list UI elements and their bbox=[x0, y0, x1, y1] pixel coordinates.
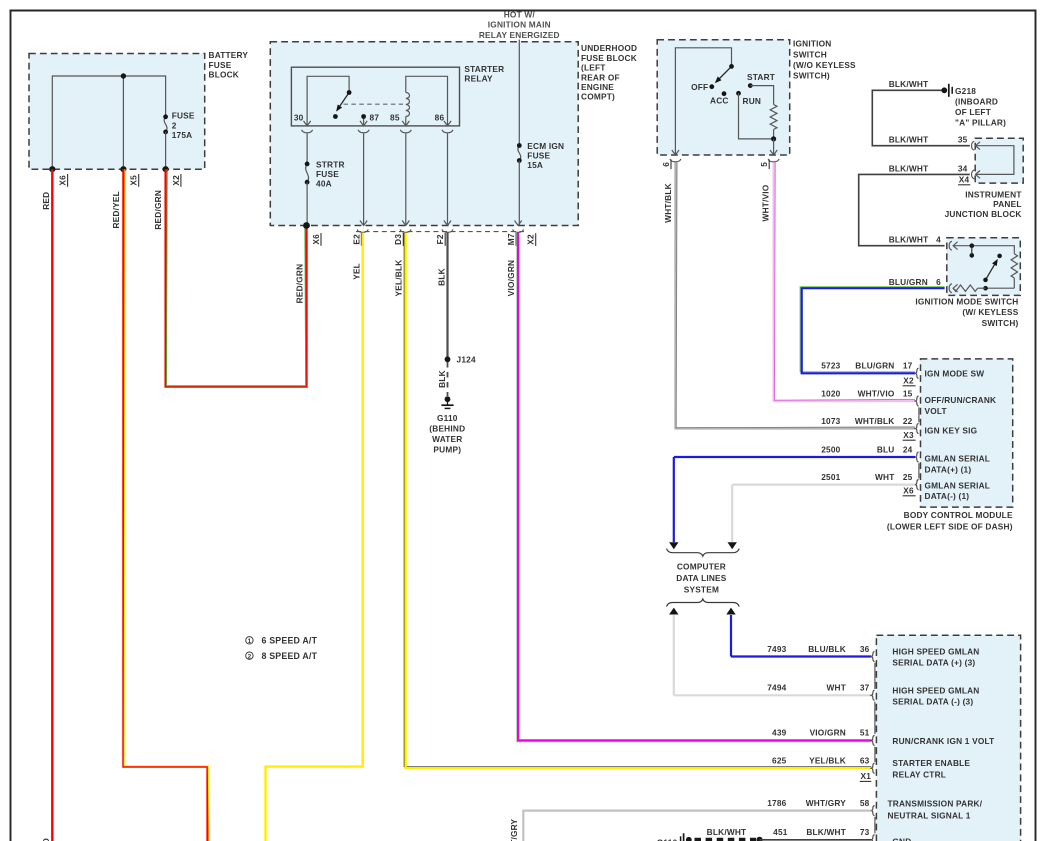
fuse ECM IGN FUSE 15A bbox=[518, 146, 521, 161]
svg-text:F2: F2 bbox=[435, 234, 445, 244]
svg-text:RED/GRN: RED/GRN bbox=[153, 190, 163, 230]
wire BLK from F2 to J124 bbox=[446, 233, 448, 360]
svg-text:BLK/WHT: BLK/WHT bbox=[889, 135, 929, 145]
svg-text:X3: X3 bbox=[903, 430, 914, 440]
note 2 8-speed bbox=[246, 652, 253, 659]
relay switch arm bbox=[338, 93, 350, 110]
relay pin 30 arrow bbox=[304, 121, 311, 126]
svg-text:YEL/BLK: YEL/BLK bbox=[393, 260, 403, 297]
ground G110 bottom bbox=[683, 833, 685, 841]
svg-text:175A: 175A bbox=[172, 130, 193, 140]
relay mechanical link dashed bbox=[344, 103, 404, 105]
ECM pin 37 bbox=[871, 690, 874, 700]
resistor ignition switch bbox=[770, 105, 777, 130]
BCM pin 22 bbox=[915, 423, 918, 433]
svg-text:85: 85 bbox=[390, 113, 400, 123]
svg-text:OF LEFT: OF LEFT bbox=[955, 107, 991, 117]
svg-text:STRTR: STRTR bbox=[316, 159, 345, 169]
brace computer data lines top bbox=[667, 549, 740, 557]
svg-text:2501: 2501 bbox=[821, 472, 840, 482]
svg-text:G110: G110 bbox=[657, 838, 678, 841]
relay pin 86 arrow bbox=[444, 121, 451, 126]
svg-text:2500: 2500 bbox=[821, 444, 840, 454]
svg-text:ACC: ACC bbox=[710, 96, 729, 106]
svg-text:WHT: WHT bbox=[875, 472, 895, 482]
svg-text:HIGH SPEED GMLAN: HIGH SPEED GMLAN bbox=[892, 685, 979, 695]
battery fuse block box bbox=[29, 54, 205, 170]
svg-text:D3: D3 bbox=[393, 234, 403, 245]
svg-text:(LOWER LEFT SIDE OF DASH): (LOWER LEFT SIDE OF DASH) bbox=[887, 521, 1013, 531]
relay pin 30 branch bbox=[307, 76, 349, 126]
svg-text:NEUTRAL SIGNAL 1: NEUTRAL SIGNAL 1 bbox=[888, 811, 971, 821]
contact START bbox=[748, 83, 753, 88]
svg-text:SWITCH: SWITCH bbox=[793, 49, 827, 59]
svg-text:451: 451 bbox=[773, 827, 788, 837]
svg-text:FUSE: FUSE bbox=[316, 169, 339, 179]
svg-text:RED: RED bbox=[41, 192, 51, 210]
fuse STRTR FUSE 40A bbox=[306, 164, 309, 182]
svg-text:X6: X6 bbox=[311, 234, 321, 245]
svg-text:7493: 7493 bbox=[767, 644, 786, 654]
svg-text:COMPT): COMPT) bbox=[581, 92, 615, 102]
relay arm pivot bbox=[347, 90, 352, 95]
BCM pin 25 bbox=[915, 480, 918, 490]
svg-text:RELAY CTRL: RELAY CTRL bbox=[892, 769, 946, 779]
wire BLK/WHT 34 to ignition mode switch 4 bbox=[859, 174, 970, 245]
wire BLU/GRN ignition mode switch to BCM 17 bbox=[800, 287, 945, 372]
svg-text:24: 24 bbox=[903, 444, 913, 454]
node underhood pin X6 bbox=[303, 222, 310, 229]
svg-text:FUSE: FUSE bbox=[527, 151, 550, 161]
ECM pin 51 bbox=[871, 735, 874, 745]
ignition mode switch top line bbox=[953, 246, 1014, 254]
wire BLU BCM 24 to data lines bbox=[674, 456, 915, 458]
svg-text:FUSE: FUSE bbox=[209, 60, 232, 70]
svg-text:BLK/WHT: BLK/WHT bbox=[889, 163, 929, 173]
arrow up BLU/BLK bbox=[726, 608, 735, 615]
wire BLK/WHT to ground G218 bbox=[872, 90, 970, 145]
wire RED/YEL from battery X5 to bottom bbox=[123, 169, 207, 841]
svg-text:(INBOARD: (INBOARD bbox=[955, 97, 998, 107]
svg-text:5: 5 bbox=[759, 162, 769, 167]
wire START to resistor bbox=[750, 86, 773, 105]
relay coil branch bbox=[406, 76, 448, 126]
wire BLU/BLK data lines to ECM 36 bbox=[730, 615, 732, 657]
svg-text:VIO/GRN: VIO/GRN bbox=[506, 260, 516, 296]
svg-text:36: 36 bbox=[860, 644, 870, 654]
svg-text:YEL: YEL bbox=[352, 263, 362, 280]
node ground splice bbox=[756, 837, 762, 841]
svg-text:BLU/GRN: BLU/GRN bbox=[855, 361, 894, 371]
svg-text:PUMP): PUMP) bbox=[433, 444, 461, 454]
svg-text:DATA LINES: DATA LINES bbox=[676, 573, 727, 583]
svg-text:RUN: RUN bbox=[743, 96, 762, 106]
wire WHT/GRY from bottom to ECM 58 bbox=[523, 811, 871, 841]
svg-text:87: 87 bbox=[370, 113, 380, 123]
instrument panel junction block box bbox=[975, 138, 1023, 183]
wire YEL from E2 bbox=[266, 233, 363, 841]
node ignition switch junction bbox=[771, 136, 776, 141]
svg-text:BATTERY: BATTERY bbox=[209, 50, 249, 60]
svg-text:SYSTEM: SYSTEM bbox=[684, 585, 719, 595]
wire relay 85 to D3 bbox=[405, 134, 407, 226]
svg-text:SERIAL DATA (+) (3): SERIAL DATA (+) (3) bbox=[892, 658, 975, 668]
svg-text:8 SPEED A/T: 8 SPEED A/T bbox=[262, 651, 318, 661]
svg-text:2: 2 bbox=[248, 654, 252, 661]
wire relay 86 to F2 bbox=[447, 134, 449, 226]
svg-text:73: 73 bbox=[860, 827, 870, 837]
ECM pin 36 bbox=[871, 651, 874, 661]
svg-text:G218: G218 bbox=[955, 86, 976, 96]
wire relay 30 to STRTR fuse bbox=[306, 134, 308, 164]
note 1 6-speed bbox=[246, 637, 253, 644]
connector dashed link line bbox=[356, 231, 524, 233]
engine control module box bbox=[876, 635, 1020, 841]
svg-text:RELAY ENERGIZED: RELAY ENERGIZED bbox=[479, 30, 560, 40]
svg-text:25: 25 bbox=[903, 472, 913, 482]
svg-text:7494: 7494 bbox=[767, 683, 786, 693]
wire WHT data lines to ECM 37 bbox=[673, 615, 675, 695]
BCM pin 17 bbox=[915, 368, 918, 378]
svg-text:58: 58 bbox=[860, 798, 870, 808]
svg-text:6: 6 bbox=[661, 162, 671, 167]
svg-text:6 SPEED A/T: 6 SPEED A/T bbox=[262, 635, 318, 645]
svg-text:BLU/BLK: BLU/BLK bbox=[808, 644, 846, 654]
svg-text:RED/YEL: RED/YEL bbox=[111, 191, 121, 228]
svg-text:"A" PILLAR): "A" PILLAR) bbox=[955, 118, 1006, 128]
svg-text:HOT W/: HOT W/ bbox=[504, 9, 536, 19]
svg-text:1020: 1020 bbox=[821, 388, 840, 398]
wire ECM IGN fuse to M7 bbox=[518, 161, 520, 226]
svg-text:WHT/GRY: WHT/GRY bbox=[806, 798, 847, 808]
svg-text:RED/GRN: RED/GRN bbox=[295, 264, 305, 304]
svg-text:DATA(+) (1): DATA(+) (1) bbox=[925, 464, 972, 474]
svg-text:X2: X2 bbox=[526, 234, 536, 245]
relay pin 87 stub bbox=[363, 117, 365, 126]
pin 6 ignition mode switch bbox=[949, 284, 952, 293]
underhood fuse block box bbox=[270, 42, 578, 226]
svg-text:STARTER ENABLE: STARTER ENABLE bbox=[892, 758, 970, 768]
BCM pin 15 bbox=[915, 396, 918, 406]
wire STRTR fuse to X6 bbox=[306, 182, 308, 225]
svg-text:86: 86 bbox=[435, 113, 445, 123]
svg-text:DATA(-) (1): DATA(-) (1) bbox=[925, 491, 970, 501]
svg-text:BLU: BLU bbox=[877, 444, 895, 454]
svg-text:BLK: BLK bbox=[437, 268, 447, 286]
ground bus dashed thick bbox=[695, 838, 757, 841]
svg-text:(LEFT: (LEFT bbox=[581, 63, 606, 73]
wire RED/GRN battery X2 to underhood X6 bbox=[166, 169, 307, 386]
svg-text:ECM IGN: ECM IGN bbox=[527, 141, 564, 151]
ignition mode switch bottom line bbox=[986, 287, 1015, 289]
svg-text:BLK: BLK bbox=[437, 370, 447, 388]
resistor ignition mode switch vertical bbox=[1011, 254, 1017, 278]
svg-text:1073: 1073 bbox=[821, 416, 840, 426]
svg-text:G110: G110 bbox=[437, 413, 458, 423]
node battery pin X6 bbox=[49, 166, 55, 172]
svg-text:BODY CONTROL MODULE: BODY CONTROL MODULE bbox=[904, 510, 1013, 520]
svg-text:FUSE BLOCK: FUSE BLOCK bbox=[581, 53, 637, 63]
svg-text:RELAY: RELAY bbox=[464, 74, 493, 84]
wire battery X5 drop bbox=[122, 76, 124, 169]
wire WHT BCM 25 to data lines bbox=[732, 484, 915, 486]
svg-text:SWITCH): SWITCH) bbox=[793, 71, 830, 81]
BCM pin 24 bbox=[915, 452, 918, 462]
arrow down BLU bbox=[669, 542, 678, 549]
svg-text:5723: 5723 bbox=[821, 361, 840, 371]
wire fuse2 to X2 bbox=[165, 132, 167, 169]
wire hot feed to ECM IGN fuse bbox=[518, 40, 520, 146]
wire YEL/BLK from D3 to ECM 63 bbox=[404, 233, 871, 767]
connector arcs ignition switch bbox=[670, 159, 681, 162]
relay pin 87 contact dot bbox=[361, 114, 366, 119]
relay arm contact dot bbox=[333, 114, 338, 119]
svg-text:GMLAN SERIAL: GMLAN SERIAL bbox=[925, 454, 991, 464]
svg-text:JUNCTION BLOCK: JUNCTION BLOCK bbox=[945, 209, 1022, 219]
svg-text:X4: X4 bbox=[959, 175, 970, 185]
svg-text:22: 22 bbox=[903, 416, 913, 426]
svg-text:35: 35 bbox=[958, 135, 968, 145]
connector arcs under underhood fuse block bbox=[357, 229, 368, 232]
svg-text:34: 34 bbox=[958, 163, 968, 173]
wire RED from battery X6 to bottom bbox=[51, 169, 53, 841]
fuse FUSE 2 175A bbox=[164, 117, 167, 132]
wire relay 87 to E2 bbox=[363, 134, 365, 226]
BCM connector line segments bbox=[918, 407, 920, 422]
svg-text:IGNITION MODE SWITCH: IGNITION MODE SWITCH bbox=[915, 296, 1018, 306]
svg-text:WHT/BLK: WHT/BLK bbox=[855, 416, 895, 426]
svg-text:REAR OF: REAR OF bbox=[581, 72, 620, 82]
svg-text:GND: GND bbox=[892, 836, 911, 841]
svg-text:HIGH SPEED GMLAN: HIGH SPEED GMLAN bbox=[892, 646, 979, 656]
brace computer data lines bottom bbox=[667, 599, 740, 607]
wire BLK dashed to ground bbox=[447, 362, 449, 396]
ECM pin 73 bbox=[871, 835, 874, 841]
svg-text:(W/O KEYLESS: (W/O KEYLESS bbox=[793, 60, 856, 70]
ignition mode switch box bbox=[947, 238, 1021, 296]
svg-text:INSTRUMENT: INSTRUMENT bbox=[965, 189, 1021, 199]
ignition mode switch contact dots bbox=[970, 243, 975, 248]
svg-text:30: 30 bbox=[294, 113, 304, 123]
svg-text:(BEHIND: (BEHIND bbox=[429, 424, 465, 434]
svg-text:RUN/CRANK IGN 1 VOLT: RUN/CRANK IGN 1 VOLT bbox=[892, 736, 994, 746]
svg-text:625: 625 bbox=[772, 756, 787, 766]
svg-text:WHT/VIO: WHT/VIO bbox=[761, 184, 771, 221]
wire junction to pin 5 bbox=[773, 139, 775, 155]
svg-text:6: 6 bbox=[936, 277, 941, 287]
ECM pin 63 bbox=[871, 763, 874, 773]
svg-text:IGNITION MAIN: IGNITION MAIN bbox=[488, 20, 551, 30]
svg-text:YEL/BLK: YEL/BLK bbox=[809, 756, 846, 766]
ignition switch arm bbox=[718, 66, 732, 80]
wire WHT/VIO ignition pin5 to BCM 15 bbox=[774, 162, 915, 401]
relay coil bbox=[406, 93, 410, 117]
svg-text:COMPUTER: COMPUTER bbox=[677, 562, 726, 572]
pin 34 instrument panel junction block bbox=[972, 170, 975, 179]
wire BLK/WHT 451 to ECM 73 bbox=[760, 839, 872, 841]
svg-text:VOLT: VOLT bbox=[925, 406, 947, 416]
svg-text:X5: X5 bbox=[129, 175, 139, 186]
node battery pin X2 bbox=[163, 166, 169, 172]
svg-text:SWITCH): SWITCH) bbox=[982, 318, 1019, 328]
pin 35 instrument panel junction block bbox=[972, 141, 975, 150]
junction block internal loop bbox=[976, 146, 1014, 175]
node battery pin X5 bbox=[120, 166, 126, 172]
svg-text:51: 51 bbox=[860, 728, 870, 738]
ignition mode switch arm bbox=[986, 261, 997, 280]
svg-text:IGN KEY SIG: IGN KEY SIG bbox=[925, 426, 978, 436]
resistor ignition mode switch horizontal bbox=[953, 285, 977, 291]
svg-text:15A: 15A bbox=[527, 160, 543, 170]
ECM pin 58 bbox=[871, 806, 874, 816]
ground G110 behind water pump bbox=[445, 396, 451, 402]
svg-text:ENGINE: ENGINE bbox=[581, 82, 614, 92]
svg-text:VIO/GRN: VIO/GRN bbox=[810, 728, 846, 738]
pin 4 ignition mode switch bbox=[949, 241, 952, 250]
svg-text:X6: X6 bbox=[903, 486, 914, 496]
body control module box bbox=[921, 359, 1013, 507]
svg-text:TRANSMISSION PARK/: TRANSMISSION PARK/ bbox=[888, 799, 983, 809]
svg-text:BLOCK: BLOCK bbox=[209, 70, 240, 80]
svg-text:439: 439 bbox=[772, 728, 787, 738]
relay pin 87 arrow bbox=[360, 121, 367, 126]
svg-text:OFF/RUN/CRANK: OFF/RUN/CRANK bbox=[925, 395, 997, 405]
arrow up WHT bbox=[669, 608, 678, 615]
svg-text:63: 63 bbox=[860, 756, 870, 766]
contact RUN bbox=[736, 91, 741, 96]
wire VIO/GRN from M7 to ECM 51 bbox=[517, 233, 872, 742]
wire battery bus bbox=[52, 76, 165, 169]
wire WHT/BLK ignition pin6 to BCM 22 bbox=[675, 162, 915, 428]
svg-text:IGN MODE SW: IGN MODE SW bbox=[925, 368, 985, 378]
svg-text:FUSE: FUSE bbox=[172, 111, 195, 121]
svg-text:PANEL: PANEL bbox=[993, 199, 1022, 209]
svg-text:BLK/WHT: BLK/WHT bbox=[707, 827, 747, 837]
svg-text:17: 17 bbox=[903, 361, 913, 371]
svg-text:WHT/BLK: WHT/BLK bbox=[663, 183, 673, 223]
svg-text:M7: M7 bbox=[506, 233, 516, 245]
svg-text:40A: 40A bbox=[316, 179, 332, 189]
svg-text:J124: J124 bbox=[457, 355, 476, 365]
svg-text:15: 15 bbox=[903, 388, 913, 398]
svg-text:X2: X2 bbox=[903, 376, 914, 386]
svg-text:BLK/WHT: BLK/WHT bbox=[889, 235, 929, 245]
wire RUN branch bbox=[739, 93, 774, 139]
ignition switch pivot bbox=[729, 64, 734, 69]
svg-text:X6: X6 bbox=[58, 175, 68, 186]
svg-text:BLU/GRN: BLU/GRN bbox=[889, 277, 928, 287]
svg-text:GMLAN SERIAL: GMLAN SERIAL bbox=[925, 480, 991, 490]
svg-text:BLK/WHT: BLK/WHT bbox=[889, 79, 929, 89]
wire resistor to junction bbox=[773, 130, 775, 139]
node J124 bbox=[445, 356, 451, 362]
svg-text:START: START bbox=[747, 72, 775, 82]
svg-text:X1: X1 bbox=[861, 771, 872, 781]
starter relay box bbox=[291, 67, 459, 126]
svg-text:WHT/GRY: WHT/GRY bbox=[509, 818, 519, 841]
ground G218 bbox=[941, 87, 947, 93]
svg-text:STARTER: STARTER bbox=[464, 64, 504, 74]
arrow down WHT bbox=[728, 542, 737, 549]
svg-text:X2: X2 bbox=[171, 175, 181, 186]
svg-text:1786: 1786 bbox=[767, 798, 786, 808]
svg-text:UNDERHOOD: UNDERHOOD bbox=[581, 43, 637, 53]
svg-text:(W/ KEYLESS: (W/ KEYLESS bbox=[962, 307, 1018, 317]
svg-text:WHT: WHT bbox=[827, 683, 847, 693]
svg-text:BLK/WHT: BLK/WHT bbox=[806, 827, 846, 837]
svg-text:WHT/VIO: WHT/VIO bbox=[858, 388, 895, 398]
contact OFF bbox=[709, 84, 714, 89]
svg-text:1: 1 bbox=[248, 638, 252, 645]
ignition switch feed line bbox=[675, 48, 731, 155]
svg-text:4: 4 bbox=[936, 235, 941, 245]
ignition switch box bbox=[657, 40, 790, 155]
ECM connector line segments bbox=[874, 663, 876, 689]
svg-text:OFF: OFF bbox=[691, 82, 708, 92]
contact ACC bbox=[722, 91, 727, 96]
svg-text:E2: E2 bbox=[351, 234, 361, 245]
svg-text:2: 2 bbox=[172, 120, 177, 130]
relay pin 85 arrow bbox=[402, 121, 409, 126]
node battery bus junction bbox=[121, 73, 126, 78]
svg-text:37: 37 bbox=[860, 683, 870, 693]
svg-text:SERIAL DATA (-) (3): SERIAL DATA (-) (3) bbox=[892, 697, 973, 707]
svg-text:IGNITION: IGNITION bbox=[793, 39, 831, 49]
svg-text:WATER: WATER bbox=[432, 434, 462, 444]
